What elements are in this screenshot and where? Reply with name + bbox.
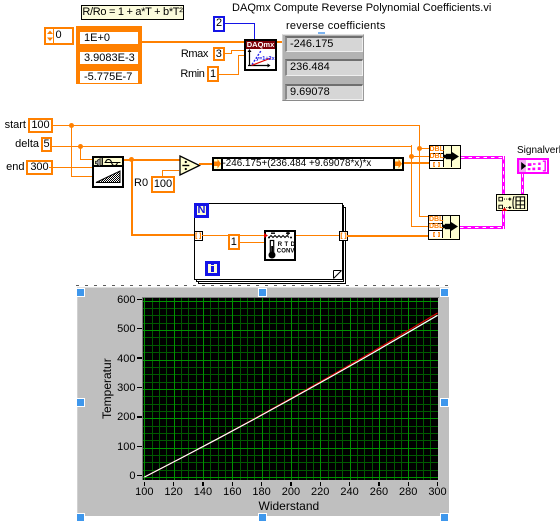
- svg-text:RTD: RTD: [278, 242, 296, 248]
- svg-text:y=1+2x: y=1+2x: [256, 56, 275, 62]
- svg-text:CONV: CONV: [277, 248, 295, 254]
